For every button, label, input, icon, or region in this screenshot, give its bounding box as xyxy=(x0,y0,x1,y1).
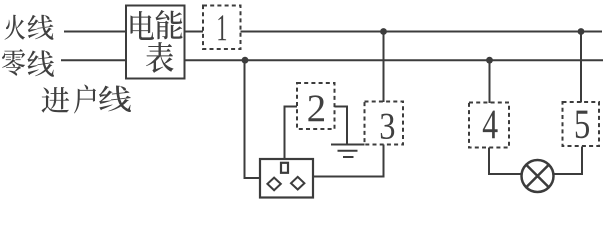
wire: live wire (火线) left segment xyxy=(64,31,126,33)
label 1 xyxy=(218,15,226,40)
label 零线 (neutral wire) xyxy=(2,49,54,77)
wire: box 2 right lead to ground xyxy=(335,107,348,144)
wire: neutral down to box 4 xyxy=(489,60,491,103)
energy meter box 电能表 xyxy=(126,6,185,79)
socket right slot (diamond) xyxy=(291,177,304,190)
dashed box 4 xyxy=(469,103,509,148)
junction node on neutral wire above box 4 xyxy=(486,57,493,64)
wire: box 4 down and across to lamp xyxy=(489,148,523,175)
wire: neutral wire (零线) left segment xyxy=(61,59,126,61)
label 3 xyxy=(381,114,394,139)
socket left slot (diamond) xyxy=(267,178,280,191)
lamp (circle with X) xyxy=(522,160,554,192)
dashed box 3 xyxy=(365,102,404,145)
wire: neutral down + across to socket left xyxy=(245,60,260,178)
wire: box 3 down and across to socket right xyxy=(314,145,384,177)
label 4 xyxy=(483,111,498,139)
label 电能表 inside meter xyxy=(130,10,182,73)
wire: live wire down to box 5 xyxy=(580,32,582,103)
junction node on live wire above box 5 xyxy=(578,28,585,35)
socket (three-hole outlet) xyxy=(260,159,313,198)
label 5 xyxy=(576,111,589,139)
label 进户线 (service entrance wires) xyxy=(41,84,131,113)
wire: live wire from box 1 to right end xyxy=(241,31,603,33)
socket earth slot xyxy=(281,163,288,173)
dashed box 5 xyxy=(563,102,600,146)
junction node on neutral wire above socket xyxy=(242,57,249,64)
dashed box 1 xyxy=(203,6,241,50)
label 火线 (live wire) xyxy=(5,15,54,40)
wire: box 2 left lead down to socket earth pin xyxy=(285,107,298,159)
junction node on live wire above box 3 xyxy=(380,28,387,35)
wire: lamp to box 5 xyxy=(553,147,582,175)
label 2 xyxy=(308,95,324,121)
dashed box 2 xyxy=(297,83,335,129)
wire: live wire down to box 3 xyxy=(383,32,385,103)
wire: meter to box 1 xyxy=(185,31,204,33)
wire: neutral wire from meter to right end xyxy=(185,59,604,61)
ground symbol xyxy=(331,145,365,158)
